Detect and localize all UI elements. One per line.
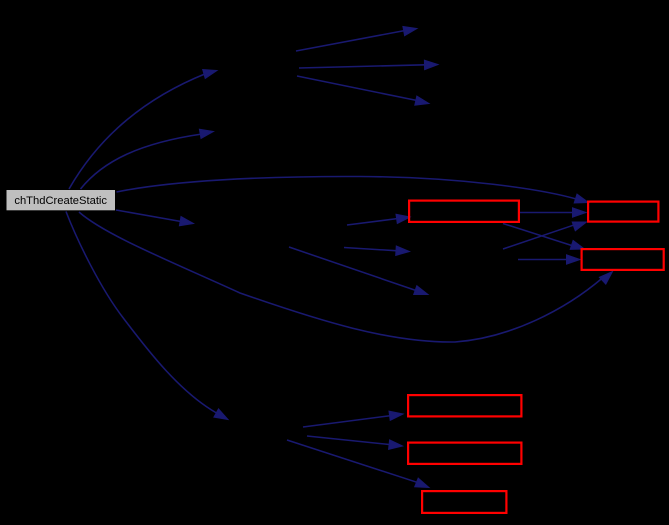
edge box R1->box R2 [520,208,586,217]
box R1 (mid-left red node) [409,201,519,222]
box R6 (bottom red node 3) [422,491,506,513]
edge node D->box R4 [303,411,403,427]
edge node A->top2 [299,60,438,69]
box R4 (bottom red node 1) [408,395,521,416]
edge node F->box R3 [518,255,580,264]
edge node C->node E [289,247,428,295]
edge node D->box R5 [307,436,403,449]
box R5 (bottom red node 2) [408,443,521,464]
box R3 (right red node) [582,249,664,270]
edge main->node D [66,212,228,420]
svg-text:chThdCreateStatic: chThdCreateStatic [14,195,107,207]
edge box R1->box R3 [503,224,585,250]
edge main->node A [69,70,217,190]
edge main->box R3 (bottom swoop) [79,212,613,342]
edge node A->top1 [296,27,417,52]
edge node A->top3 [297,76,429,105]
edge main->node B [81,129,214,189]
box R2 (top-right red node) [588,202,658,222]
edge node F->box R2 [503,222,587,249]
edge node C->box R1 [347,214,410,225]
edge node C->node F [344,246,410,255]
edge main->box R2 (top swoop) [117,176,589,203]
edge node D->box R6 [287,440,429,488]
edge main->node C [116,210,194,226]
node chThdCreateStatic [7,190,116,210]
